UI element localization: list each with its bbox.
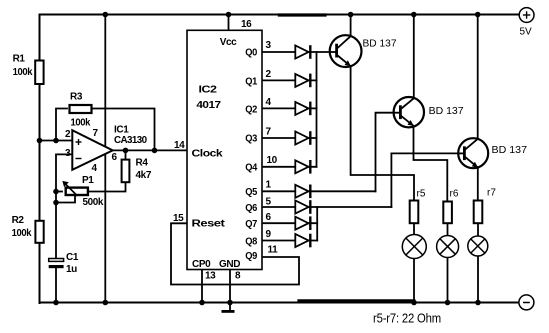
svg-text:Vcc: Vcc	[220, 37, 237, 48]
svg-text:BD 137: BD 137	[492, 145, 528, 156]
svg-text:Q7: Q7	[245, 219, 257, 230]
diode D8 Q7	[295, 216, 310, 230]
terminal +5V	[519, 8, 534, 38]
diode D1 Q0	[295, 45, 310, 59]
node P1 left junction	[53, 189, 59, 195]
wire T2 collector	[413, 15, 415, 99]
svg-text:r5: r5	[417, 188, 426, 199]
wire diode bus Q6-Q8	[316, 207, 318, 241]
svg-text:3: 3	[266, 40, 272, 51]
wire R3 left leg	[56, 109, 67, 141]
svg-text:Q3: Q3	[245, 134, 257, 145]
svg-text:BD 137: BD 137	[429, 106, 464, 117]
wire non-inverting input pin2	[40, 140, 74, 142]
svg-text:Q8: Q8	[245, 237, 257, 248]
svg-text:BD 137: BD 137	[363, 39, 397, 50]
svg-text:16: 16	[241, 19, 252, 30]
svg-text:Reset: Reset	[192, 219, 226, 230]
wire lamp3 to ground rail	[477, 256, 479, 303]
ground	[229, 303, 231, 311]
svg-text:CA3130: CA3130	[114, 135, 148, 146]
wire inverting input pin3	[56, 154, 73, 191]
transistor T1 BD137	[329, 35, 397, 67]
svg-text:14: 14	[174, 140, 185, 151]
wire P1 wiper	[56, 196, 75, 203]
svg-text:10: 10	[267, 155, 278, 166]
diode D6 Q5	[295, 185, 310, 199]
wire T2 emitter to r6	[414, 126, 448, 201]
svg-text:13: 13	[205, 271, 216, 282]
resistor r6	[443, 188, 459, 223]
wire T1 emitter to r5	[351, 66, 414, 199]
wire bottom ground rail	[40, 302, 519, 304]
wire op-amp pin7 to top rail	[104, 15, 106, 147]
node lamp3 ground junction	[475, 300, 481, 306]
wire diode bus Q0-Q4	[316, 52, 318, 167]
lamp La1	[402, 235, 426, 259]
wire Q1 row	[262, 79, 317, 81]
svg-text:5: 5	[266, 197, 272, 208]
svg-text:4: 4	[266, 97, 272, 108]
wire R4 bottom leg to P1	[88, 183, 126, 192]
wire C1 to ground rail	[55, 268, 57, 303]
svg-text:r5-r7: 22 Ohm: r5-r7: 22 Ohm	[373, 312, 441, 326]
svg-text:r7: r7	[487, 188, 496, 199]
svg-text:100k: 100k	[71, 118, 91, 129]
svg-text:100k: 100k	[12, 228, 32, 239]
wire op-amp pin4 to bottom rail	[104, 152, 106, 303]
svg-text:7: 7	[266, 127, 272, 138]
node lamp1 ground junction	[411, 300, 417, 306]
node T2 collector rail junction	[411, 12, 417, 18]
resistor R1	[13, 53, 44, 84]
wire T3 collector	[477, 15, 479, 139]
op-amp U1 CA3130	[65, 125, 148, 174]
node R4 output junction	[123, 148, 129, 154]
svg-text:Q4: Q4	[245, 162, 257, 173]
node pin13 ground junction	[199, 300, 205, 306]
wire lamp2 to ground rail	[447, 257, 449, 303]
lamp La3	[468, 236, 488, 256]
svg-text:1u: 1u	[66, 264, 77, 275]
svg-text:IC2: IC2	[199, 85, 218, 96]
svg-text:R1: R1	[13, 53, 26, 64]
svg-text:4017: 4017	[196, 100, 221, 111]
wire P1 left terminal	[56, 191, 62, 193]
resistor R2	[12, 215, 44, 243]
wire r6 to lamp2	[447, 224, 449, 236]
svg-text:GND: GND	[219, 259, 240, 270]
wire T3 emitter to r7	[477, 168, 479, 200]
svg-text:2: 2	[65, 129, 71, 140]
svg-text:8: 8	[235, 271, 241, 282]
svg-text:C1: C1	[66, 252, 79, 263]
terminal minus	[519, 295, 534, 310]
wire T2 base riser	[376, 113, 402, 192]
potentiometer P1	[62, 175, 103, 208]
node P1 wiper junction	[53, 200, 59, 206]
svg-text:1: 1	[266, 179, 272, 190]
node C1 ground junction	[53, 300, 59, 306]
svg-text:3: 3	[65, 148, 71, 159]
wire Q0 row	[262, 51, 337, 53]
capacitor C1	[49, 252, 79, 275]
diode D4 Q3	[295, 131, 310, 145]
diode D5 Q4	[295, 160, 310, 174]
wire top rail bold segment	[279, 13, 325, 16]
wire r7 to lamp3	[477, 224, 479, 236]
node lamp2 ground junction	[445, 300, 451, 306]
wire T3 base riser	[391, 153, 465, 207]
wire CP0 pin13 to ground	[201, 270, 203, 304]
wire R4 top leg	[125, 150, 127, 160]
diode D2 Q1	[295, 74, 310, 88]
svg-text:CP0: CP0	[192, 259, 211, 270]
svg-text:500k: 500k	[83, 197, 104, 208]
wire GND pin8 to ground	[229, 270, 231, 304]
svg-text:Q5: Q5	[245, 187, 257, 198]
diode D9 Q8	[295, 234, 310, 248]
wire Q5 row to T2 base	[262, 190, 376, 192]
svg-text:Q6: Q6	[245, 203, 257, 214]
node pin7 rail junction	[103, 12, 109, 18]
svg-text:Q2: Q2	[245, 104, 257, 115]
svg-text:R4: R4	[136, 158, 149, 169]
wire lamp1 to ground rail	[413, 258, 415, 303]
node T1 collector rail junction	[348, 12, 354, 18]
wire r5 to lamp1	[413, 224, 415, 235]
wire bottom rail bold segment	[299, 299, 414, 302]
node feedback output junction	[152, 148, 158, 154]
node Vcc rail junction	[226, 12, 232, 18]
wire Q8 row	[262, 240, 317, 242]
svg-text:9: 9	[266, 229, 272, 240]
svg-text:6: 6	[112, 152, 118, 163]
wire Q7 row	[262, 222, 317, 224]
lamp La2	[437, 236, 459, 258]
svg-text:11: 11	[268, 244, 279, 255]
IC U2 4017	[173, 19, 278, 282]
resistor r5	[410, 188, 426, 223]
wire left rail	[39, 15, 41, 304]
svg-text:R3: R3	[70, 92, 83, 103]
svg-text:5V: 5V	[520, 27, 533, 38]
transistor T3 BD137	[458, 138, 527, 168]
node T3 collector rail junction	[475, 12, 481, 18]
wire Q4 row	[262, 166, 317, 168]
node pin4 ground junction	[103, 300, 109, 306]
resistor R4	[122, 158, 152, 183]
svg-text:Q0: Q0	[245, 47, 257, 58]
svg-text:2: 2	[266, 69, 272, 80]
wire top supply rail	[40, 14, 520, 16]
node pin2 left rail junction	[37, 138, 43, 144]
svg-text:r6: r6	[450, 188, 459, 199]
diode D7 Q6	[295, 200, 310, 214]
wire Q6 row to T3 base leg	[262, 206, 391, 208]
svg-text:7: 7	[93, 128, 99, 139]
wire Q2 row	[262, 107, 317, 109]
wire R3 right leg feedback	[93, 109, 155, 151]
svg-text:P1: P1	[82, 175, 94, 186]
svg-text:15: 15	[173, 213, 184, 224]
svg-text:6: 6	[266, 212, 272, 223]
svg-text:100k: 100k	[13, 67, 33, 78]
node R3 pin2 junction	[53, 138, 59, 144]
transistor T2 BD137	[394, 97, 464, 127]
svg-text:4: 4	[92, 163, 98, 174]
wire node to C1	[55, 192, 57, 259]
wire Q3 row	[262, 137, 317, 139]
svg-text:Q9: Q9	[245, 251, 257, 262]
svg-text:R2: R2	[12, 215, 25, 226]
svg-text:Q1: Q1	[245, 76, 257, 87]
wire T1 collector	[350, 15, 352, 36]
wire reset pin15 loop from Q9 pin11	[171, 223, 299, 284]
svg-text:4k7: 4k7	[136, 170, 152, 181]
node pin8 ground junction	[227, 300, 233, 306]
resistor r7	[474, 188, 497, 224]
svg-text:Clock: Clock	[192, 149, 224, 160]
diode D3 Q2	[295, 102, 310, 116]
resistor R3	[70, 92, 92, 129]
wire op-amp output to clock pin14	[113, 149, 187, 151]
wire Vcc pin16	[228, 15, 230, 31]
